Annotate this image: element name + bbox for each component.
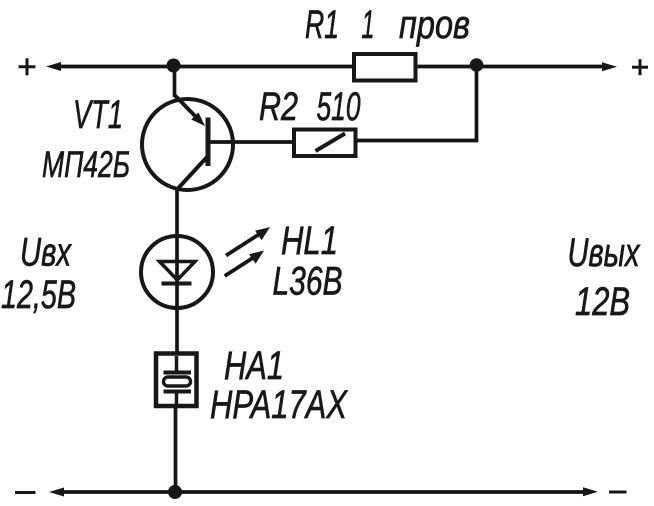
svg-text:VT1: VT1 (73, 93, 123, 137)
svg-text:пров: пров (399, 3, 470, 47)
svg-text:12,5В: 12,5В (1, 273, 76, 317)
svg-text:R2: R2 (259, 85, 298, 129)
svg-text:Uвых: Uвых (568, 231, 641, 275)
svg-text:L36B: L36B (273, 260, 343, 304)
svg-text:510: 510 (317, 85, 361, 129)
svg-text:Uвх: Uвх (20, 231, 72, 275)
svg-text:R1: R1 (305, 3, 339, 47)
svg-text:12В: 12В (575, 280, 630, 324)
svg-text:1: 1 (362, 3, 375, 47)
svg-text:HL1: HL1 (281, 219, 338, 263)
svg-text:НРА17АХ: НРА17АХ (210, 383, 348, 427)
svg-text:HA1: HA1 (224, 344, 284, 388)
svg-text:МП42Б: МП42Б (42, 144, 130, 185)
